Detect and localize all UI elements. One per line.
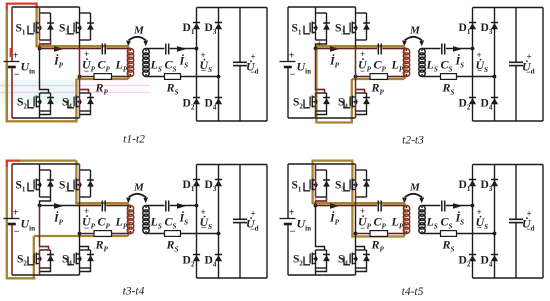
svg-text:−: −	[14, 70, 20, 81]
svg-text:−: −	[84, 223, 89, 233]
svg-text:−: −	[526, 224, 531, 234]
svg-text:t2-t3: t2-t3	[402, 135, 424, 147]
svg-text:+: +	[13, 208, 19, 219]
svg-text:+: +	[289, 51, 295, 62]
svg-text:M: M	[133, 182, 145, 194]
svg-text:t3-t4: t3-t4	[123, 286, 145, 298]
svg-text:−: −	[201, 223, 206, 233]
svg-text:+: +	[289, 208, 295, 219]
svg-text:−: −	[250, 67, 255, 77]
svg-text:−: −	[477, 223, 482, 233]
svg-text:−: −	[84, 66, 89, 76]
svg-text:−: −	[360, 223, 365, 233]
svg-text:−: −	[201, 66, 206, 76]
svg-text:−: −	[526, 67, 531, 77]
svg-text:t4-t5: t4-t5	[402, 286, 424, 298]
svg-text:M: M	[409, 25, 421, 37]
svg-text:M: M	[133, 25, 145, 37]
svg-text:−: −	[290, 227, 296, 238]
svg-text:−: −	[477, 66, 482, 76]
svg-text:t1-t2: t1-t2	[123, 134, 145, 146]
svg-text:−: −	[250, 224, 255, 234]
svg-text:M: M	[409, 182, 421, 194]
svg-text:−: −	[290, 70, 296, 81]
svg-text:−: −	[14, 227, 20, 238]
svg-text:−: −	[360, 66, 365, 76]
svg-text:+: +	[13, 51, 19, 62]
